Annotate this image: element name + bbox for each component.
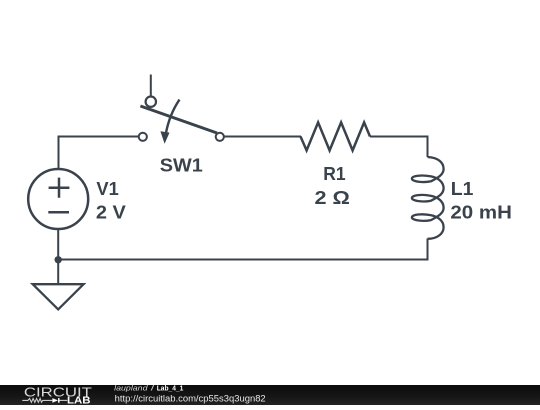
wire: switch upper stub <box>150 75 152 96</box>
svg-text:L1: L1 <box>451 178 474 199</box>
switch SW1 <box>139 75 224 141</box>
svg-text:/: / <box>151 385 156 393</box>
wire: ground stem <box>57 260 59 285</box>
svg-text:LAB: LAB <box>67 396 91 405</box>
svg-text:20 mH: 20 mH <box>450 201 512 222</box>
svg-text:Lab_4_1: Lab_4_1 <box>157 385 184 393</box>
ground symbol <box>33 284 84 309</box>
svg-text:SW1: SW1 <box>160 154 203 175</box>
switch SW1 right terminal <box>216 133 224 141</box>
wire: V1 bottom to rail <box>57 230 59 260</box>
svg-text:R1: R1 <box>323 163 345 184</box>
junction node dot <box>55 256 62 263</box>
wire: inductor bottom corner and bottom rail <box>58 239 427 260</box>
wire: switch right terminal to resistor <box>225 136 302 138</box>
footer bar <box>0 385 540 405</box>
wire: resistor to top-right corner down to inductor <box>370 137 428 158</box>
CircuitLab logo squiggle resistor <box>22 399 52 403</box>
inductor L1 coil <box>412 157 444 239</box>
label L1 value <box>450 178 512 223</box>
svg-text:2 V: 2 V <box>96 201 127 222</box>
svg-text:V1: V1 <box>96 178 118 199</box>
switch SW1 action arrow arc <box>166 100 180 134</box>
label R1 value <box>315 163 351 208</box>
wire: top-left horizontal to switch left terminal <box>58 136 139 138</box>
svg-text:laupland: laupland <box>114 385 148 393</box>
switch SW1 left terminal <box>139 133 147 141</box>
svg-text:2 Ω: 2 Ω <box>315 187 351 208</box>
switch SW1 lever <box>140 106 217 133</box>
wire: V1 top riser <box>58 137 60 169</box>
switch SW1 arrowhead <box>160 131 169 143</box>
label V1 value <box>96 178 127 223</box>
voltage source V1 <box>28 169 88 229</box>
CircuitLab logo squiggle diode <box>52 398 58 403</box>
switch SW1 pivot terminal <box>146 97 156 107</box>
resistor R1 <box>301 122 371 150</box>
svg-text:http://circuitlab.com/cp55s3q3: http://circuitlab.com/cp55s3q3ugn82 <box>115 393 266 403</box>
